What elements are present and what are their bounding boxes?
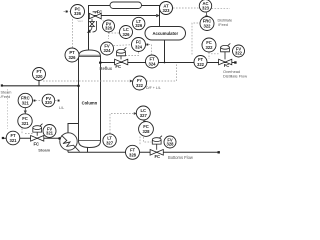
signal PC326 left stub [64,11,71,13]
node FRC321 output [34,100,36,102]
instrument LC 327 [136,106,150,120]
svg-text:Steam: Steam [1,91,12,95]
svg-text:D/F + L/L: D/F + L/L [146,86,161,90]
instrument FT 322 [194,56,207,69]
svg-text:328: 328 [167,142,175,147]
drain valve assembly below PV-326 [89,19,97,32]
svg-text:322: 322 [206,45,214,50]
instrument LT 326 [133,17,145,29]
instrument FY 322 [133,76,147,90]
signal battery limit left [7,89,9,129]
svg-text:324: 324 [149,61,157,66]
svg-text:327: 327 [106,140,114,145]
signal FC321 to steam valve [22,129,33,134]
arrow bypass into downcomer [156,14,160,17]
svg-text:324: 324 [104,48,112,53]
instrument FY 320 [42,94,55,107]
signal FC322 to distillate valve actuator [211,53,220,55]
signal FT328 to FC328 [139,137,141,146]
svg-text:320: 320 [36,74,44,79]
node steam line start [2,137,4,139]
svg-text:/Feed: /Feed [1,95,11,99]
svg-text:Accumulator: Accumulator [152,31,178,36]
signal FT320 to FY322 [43,80,131,82]
svg-text:FC: FC [34,142,40,147]
signal valve to PV326 bubble [101,19,105,23]
svg-text:328: 328 [143,129,151,134]
junction node accumulator outlet [164,62,166,64]
instrument FT 320 [33,68,46,81]
signal FV324 to FC324 [114,44,131,47]
svg-text:Vent: Vent [78,19,83,23]
svg-text:322: 322 [197,62,205,67]
signal FY322 to distillate line [147,63,177,81]
svg-text:L/L: L/L [59,106,64,110]
reboiler E-2 [60,133,80,152]
signal FC328 to bottoms valve [144,137,152,142]
instrument FT 328 [126,145,140,159]
wire FT320 tap [38,81,40,86]
svg-text:328: 328 [129,152,137,157]
node FC324 output [146,44,148,46]
svg-text:Column: Column [82,101,98,106]
wire accumulator outlet down [164,40,166,63]
signal LC326 to left [109,32,120,34]
svg-text:322: 322 [235,51,243,56]
instrument FT 324 [146,55,159,68]
wire bottoms line [68,151,219,153]
signal LT327 to LC327 [110,114,136,134]
node end of bottoms line [218,151,220,153]
svg-text:/Feed: /Feed [218,22,228,27]
svg-text:321: 321 [10,138,18,143]
valve FV-322 (distillate valve) [219,43,232,64]
instrument PT 326 [65,48,79,62]
signal AT323 to AC323 [173,7,199,9]
node end of distillate line [234,61,236,63]
svg-text:Distillate Flow: Distillate Flow [223,73,247,78]
signal PV326 down stub [108,32,110,39]
svg-text:326: 326 [105,26,113,31]
svg-text:326: 326 [69,55,77,60]
instrument FC 324 [132,38,146,52]
node FC322 input [202,44,204,46]
svg-text:326: 326 [74,11,82,16]
signal LC327 to FC328 arrow [143,120,146,124]
condenser E-1 [110,2,142,9]
valve FV-328 (bottoms valve) [150,136,163,155]
signal FRC321 to FY320 [36,100,42,102]
svg-text:321: 321 [22,121,30,126]
svg-text:321: 321 [22,100,30,105]
valve FV-321 (steam valve) [31,124,44,141]
valve PV-326 (pressure vent valve) [89,12,101,19]
svg-text:321: 321 [46,131,54,136]
svg-text:324: 324 [135,44,143,49]
instrument LT 327 [103,134,116,147]
svg-text:Bottoms Flow: Bottoms Flow [168,155,193,160]
wire reboiler bottoms stub [67,150,69,152]
valve FV-324 (reflux valve) [115,47,128,64]
junction node feed-column [77,85,80,88]
instrument FC 322 [202,38,216,52]
signal FT322 to FRC322 [192,23,200,55]
wire feed line [2,85,79,87]
instrument FV 321 [43,125,56,138]
signal FC324 to reflux valve actuator [121,52,139,56]
junction node reflux-column [99,61,102,64]
svg-text:Steam: Steam [38,147,50,152]
svg-text:326: 326 [123,32,131,37]
wire reboiler vapor return [68,124,79,135]
junction node steam-reboiler [58,137,61,140]
drain arrow [87,29,91,33]
signal FC324 to FT324 [149,45,152,55]
svg-text:326: 326 [135,23,143,28]
svg-text:FC: FC [115,64,121,69]
instrument PV 326 [103,20,115,32]
instrument FT 321 [6,131,20,145]
node PC326 stub end [66,11,68,13]
wire condenser outlet to downcomer [142,6,160,27]
instrument PC 326 [71,5,85,19]
svg-text:323: 323 [202,6,210,11]
wire hot vapor bypass line [89,15,157,17]
svg-text:FC: FC [97,10,103,15]
instrument FC 328 [139,122,154,137]
arrow into FY322 [130,80,133,83]
node FY320 output [58,100,60,102]
svg-text:FC: FC [224,63,230,68]
wire column bottom nozzle [87,148,89,153]
svg-text:327: 327 [140,113,148,118]
instrument FV 324 [101,42,114,55]
svg-text:322: 322 [204,23,212,28]
instrument FV 328 [164,136,176,148]
signal AC323 right stub [212,8,231,10]
instrument FRC 322 [200,17,214,31]
svg-text:Reflux: Reflux [100,66,113,71]
wire reflux and distillate header [101,62,236,64]
signal FRC321 to FC321 arrow [24,108,27,114]
svg-text:322: 322 [136,83,144,88]
node feed line start [1,84,3,86]
svg-text:FC: FC [155,154,161,159]
wire vapor riser column top to condenser [89,6,111,51]
signal FC322 down [208,53,210,60]
svg-text:320: 320 [45,100,53,105]
accumulator vessel [145,27,186,41]
column vessel [79,50,101,148]
instrument AC 323 [199,0,211,12]
instrument AT 323 [160,2,173,15]
svg-text:323: 323 [163,8,171,13]
signal FY320 out to L/L [55,100,58,102]
instrument LC 326 [120,26,133,39]
arrow into LC327 [134,112,137,115]
instrument FRC 321 [18,93,32,107]
instrument FC 321 [18,114,32,128]
instrument FV 322 [233,45,245,57]
signal AC323 to FRC322 arrow [205,13,208,20]
wire steam line [3,137,61,139]
signal PC326 to PT326 [72,19,74,48]
